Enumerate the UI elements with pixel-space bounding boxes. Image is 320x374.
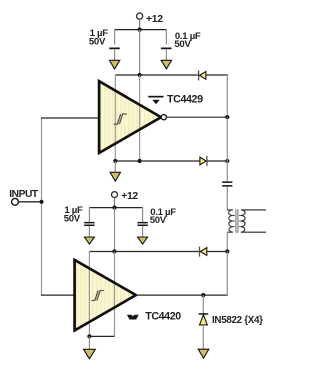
ground (C2) (161, 60, 171, 69)
wire C3 to transformer (226, 187, 228, 211)
ground (C4) (84, 237, 94, 244)
wire +12 mid stub (114, 198, 116, 208)
junction dot U2 ground (87, 334, 91, 338)
diode D3 (cathode left) (199, 247, 201, 257)
wire U1 output (166, 116, 228, 118)
capacitor C3 plates (222, 181, 232, 183)
transformer T1 secondary cusp ticks (239, 216, 241, 227)
wire U2 bottom join (89, 335, 114, 337)
wire input to U2 (41, 294, 75, 296)
wire VDD pin through U2 (left) (88, 252, 90, 337)
junction dot rail left (113, 159, 117, 163)
wire C5 to ground (142, 226, 144, 237)
wire GND pin through U2 (right) (114, 252, 116, 337)
wire C1 to ground (114, 49, 116, 61)
wire D3 to bus (207, 251, 228, 253)
wire C2 branch down (165, 30, 167, 45)
svg-text:50V: 50V (64, 213, 81, 224)
wire U2 output (136, 294, 228, 296)
capacitor C2 0.1uF 50V plate (161, 48, 172, 50)
wire input to U1 (41, 117, 99, 119)
capacitor C4 1uF 50V plates (84, 222, 94, 224)
junction dot input (39, 200, 43, 204)
junction dot U2 VDD (112, 249, 116, 253)
op-amp U1 TC4429 driver triangle (99, 81, 161, 153)
op-amp U2 outline redraw (75, 260, 136, 331)
transformer T1 primary cusp ticks (233, 216, 235, 227)
hysteresis glyph U1 (114, 114, 127, 124)
wire +12 mid branch rail (89, 207, 142, 209)
junction dot D2 node (225, 159, 229, 163)
wire D1 to right corner (206, 74, 228, 76)
ground (C5) (138, 237, 148, 244)
svg-text:50V: 50V (150, 215, 167, 226)
ground (U1) (110, 172, 120, 181)
wire transformer to D3 node (226, 232, 228, 251)
wire D2 to bus (207, 160, 228, 162)
ground (D4) (198, 349, 209, 358)
svg-text:+12: +12 (121, 191, 138, 202)
svg-text:IN5822 {X4}: IN5822 {X4} (212, 315, 263, 326)
hysteresis glyph U2 (91, 291, 104, 301)
junction dot mid +12 (112, 206, 116, 210)
wire C4 to ground (88, 226, 90, 237)
op-amp U2 TC4420 driver triangle (75, 260, 136, 331)
wire bus D3 node down to output corner (226, 252, 228, 296)
wire U1 GND rail (115, 160, 200, 162)
wire right bus down to output node (226, 75, 228, 117)
wire +12 main down to VDD rail (139, 30, 141, 75)
diode D2 (cathode right) (200, 157, 206, 165)
wire U2 VDD rail (89, 251, 199, 253)
node +12 terminal (top) (137, 13, 143, 19)
transformer T1 core (235, 209, 237, 233)
wire input bus vertical (41, 118, 43, 295)
svg-text:50V: 50V (89, 37, 106, 48)
capacitor C5 0.1uF 50V plates (137, 222, 147, 224)
wire GND pin through U1 (right) (139, 75, 141, 161)
wire VDD pin through U1 (left) (114, 75, 116, 161)
wire +12 mid down to U2 rail (114, 208, 116, 252)
wire C4 branch down (88, 208, 90, 223)
wire to ground (U1) (114, 161, 116, 173)
junction dot U2 output node (201, 293, 205, 297)
wire VDD rail of U1 (115, 74, 198, 76)
wire D4 to ground (202, 325, 204, 350)
output bubble U1 (161, 115, 166, 120)
diode D4 (cathode up) (199, 313, 209, 315)
wire C2 to ground (165, 49, 167, 61)
junction dot output node (225, 115, 229, 119)
ground (U2) (84, 349, 96, 359)
noninverting marker (127, 315, 139, 320)
node +12 terminal (mid) (112, 192, 118, 198)
inverting marker (bar + triangle) (148, 96, 163, 98)
wire +12 branch rail top (115, 29, 167, 31)
svg-text:TC4420: TC4420 (145, 311, 181, 323)
wire bus output node down (226, 117, 228, 181)
junction dot D3 node (225, 249, 229, 253)
wire to ground (U2) (88, 336, 90, 349)
wire +12 stub down from terminal (139, 19, 141, 29)
ground (C1) (109, 60, 119, 69)
svg-text:50V: 50V (174, 39, 191, 50)
op-amp U1 outline redraw (99, 81, 161, 153)
transformer T1 secondary winding (241, 210, 266, 232)
svg-text:TC4429: TC4429 (167, 93, 203, 105)
wire C5 branch down (142, 208, 144, 223)
wire C1 branch down (114, 30, 116, 45)
capacitor C1 1uF 50V plate (109, 48, 120, 50)
wire down to D4 (202, 295, 204, 313)
diode D1 (cathode left) (198, 70, 200, 80)
transformer T1 primary winding (227, 210, 233, 232)
junction dot rail right (138, 159, 142, 163)
junction dot top +12 (138, 28, 142, 32)
wire input (19, 201, 42, 203)
svg-text:+12: +12 (146, 14, 163, 25)
junction dot VDD rail (138, 73, 142, 77)
